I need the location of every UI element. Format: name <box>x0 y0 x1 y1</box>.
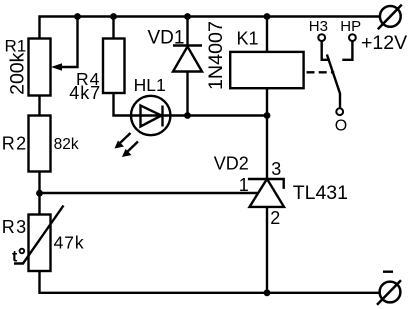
svg-text:H3: H3 <box>309 18 328 35</box>
node junction bottom-VD2 <box>264 289 271 296</box>
LED HL1 arrow 2 <box>122 142 138 158</box>
resistor R4 <box>103 39 125 94</box>
relay contact H3 terminal <box>318 34 325 41</box>
terminal +12V <box>378 5 402 30</box>
relay contact HP terminal <box>349 34 356 41</box>
degree ring of t <box>20 249 25 254</box>
wire reference to VD2 pin1 <box>40 192 259 194</box>
thermistor R3 <box>29 215 51 272</box>
shunt regulator VD2 triangle <box>250 179 285 207</box>
svg-text:3: 3 <box>271 159 281 179</box>
wire R2-R3 <box>38 172 40 215</box>
svg-text:HL1: HL1 <box>134 75 166 95</box>
shunt regulator VD2 cathode bar <box>248 179 284 189</box>
LED HL1 circle <box>131 96 170 135</box>
svg-text:1N4007: 1N4007 <box>205 21 227 90</box>
wiper arrowhead <box>51 63 62 71</box>
node junction LED-K1 <box>264 112 271 119</box>
node junction divider <box>36 190 43 197</box>
svg-text:t: t <box>12 249 18 266</box>
node junction LED-VD1 <box>184 112 191 119</box>
resistor R2 <box>29 116 51 172</box>
node junction top-wiper <box>74 13 81 20</box>
svg-text:K1: K1 <box>237 28 259 48</box>
wire top-K1 <box>266 17 268 52</box>
diode VD1 cathode bar <box>173 44 202 46</box>
wire R1-R2 <box>38 96 40 116</box>
relay common contact O terminal <box>336 108 343 115</box>
terminal minus <box>377 280 401 305</box>
wire HP contact lead <box>342 41 352 60</box>
svg-text:200k: 200k <box>6 52 28 95</box>
svg-text:4k7: 4k7 <box>69 83 101 103</box>
wire R4-LED row <box>114 93 268 116</box>
wire VD2-bottom <box>266 207 268 293</box>
wire top-VD1 <box>186 17 188 46</box>
svg-text:47k: 47k <box>54 232 85 252</box>
svg-text:TL431: TL431 <box>293 182 348 204</box>
svg-text:82k: 82k <box>54 136 79 153</box>
svg-text:O: O <box>335 118 347 135</box>
diode VD1 triangle <box>173 47 202 72</box>
wire R3-bottom <box>40 271 380 293</box>
wire wiper of R1 <box>61 17 78 68</box>
LED HL1 triangle <box>141 106 162 127</box>
node junction top-R4 <box>110 13 117 20</box>
wire VD1-LED row <box>186 72 188 116</box>
svg-text:VD1: VD1 <box>148 27 185 48</box>
mechanical link K1 dashed <box>307 71 335 73</box>
svg-text:R2: R2 <box>2 133 28 153</box>
LED HL1 arrow 1 <box>115 133 131 149</box>
svg-text:VD2: VD2 <box>214 153 249 173</box>
wire top rail <box>40 17 381 39</box>
LED HL1 cathode bar <box>161 106 163 127</box>
node junction top-VD1 <box>184 13 191 20</box>
svg-text:HP: HP <box>340 18 361 35</box>
minus sign <box>383 271 393 273</box>
wire K1-VD2 <box>266 88 268 179</box>
svg-text:R3: R3 <box>2 217 28 237</box>
svg-text:2: 2 <box>270 208 280 228</box>
svg-text:+12V: +12V <box>361 32 407 54</box>
node junction top-K1 <box>264 13 271 20</box>
relay K1 coil box <box>230 52 303 88</box>
switch armature <box>327 55 340 109</box>
thermistor R3 diagonal mark <box>14 206 64 264</box>
svg-text:1: 1 <box>239 175 249 195</box>
wire H3 contact lead <box>322 41 330 60</box>
resistor R1 <box>29 39 51 96</box>
wire top-R4 <box>112 17 114 39</box>
